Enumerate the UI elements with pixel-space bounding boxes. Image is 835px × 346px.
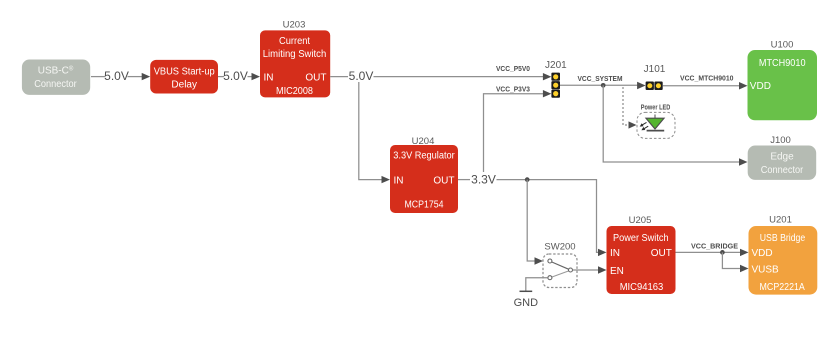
- wire junction to edge connector: [603, 85, 747, 165]
- wire VCC_P3V3 to J201 pin3: [484, 90, 552, 172]
- svg-text:OUT: OUT: [651, 248, 672, 259]
- svg-text:J100: J100: [770, 135, 791, 146]
- svg-text:5.0V: 5.0V: [349, 69, 374, 83]
- svg-text:IN: IN: [264, 72, 274, 83]
- wire 3.3V junction down to SW200: [527, 180, 543, 265]
- wire U204 OUT 3.3V rail: [458, 180, 607, 257]
- block U100 MTCH9010: [748, 50, 818, 120]
- svg-text:USB-C®: USB-C®: [38, 66, 74, 77]
- svg-text:5.0V: 5.0V: [104, 69, 129, 83]
- svg-text:USB Bridge: USB Bridge: [760, 233, 806, 244]
- block U204 3.3V regulator: [390, 145, 458, 213]
- svg-text:SW200: SW200: [544, 242, 575, 253]
- wire SW200 to U205 EN: [573, 266, 607, 273]
- svg-text:VDD: VDD: [750, 81, 771, 92]
- ground symbol: [520, 290, 533, 292]
- svg-text:IN: IN: [610, 248, 620, 259]
- svg-text:U205: U205: [629, 215, 652, 226]
- block U201 USB bridge: [749, 226, 818, 295]
- svg-text:VBUS Start-up: VBUS Start-up: [154, 66, 215, 77]
- block J100 edge connector: [748, 146, 817, 180]
- wire U203 OUT to J201 pin1 (5.0V rail): [330, 73, 551, 80]
- switch SW200: [543, 254, 577, 288]
- block VBUS Start-up Delay: [150, 60, 218, 94]
- svg-text:GND: GND: [514, 297, 539, 309]
- svg-text:OUT: OUT: [433, 175, 454, 186]
- svg-text:MCP2221A: MCP2221A: [760, 282, 806, 293]
- svg-text:J201: J201: [545, 60, 567, 71]
- wire drop 5.0V rail to U204 IN: [359, 82, 390, 183]
- junction VCC_SYSTEM: [601, 83, 606, 88]
- svg-text:U201: U201: [769, 215, 792, 226]
- svg-text:MTCH9010: MTCH9010: [759, 58, 806, 69]
- junction VCC_BRIDGE: [720, 250, 725, 255]
- svg-text:MCP1754: MCP1754: [405, 199, 444, 210]
- wire U205 OUT to U201 VDD: [676, 249, 749, 256]
- wire GND to SW200: [526, 278, 548, 292]
- svg-text:VCC_BRIDGE: VCC_BRIDGE: [691, 241, 738, 250]
- svg-text:U100: U100: [771, 40, 794, 51]
- svg-text:Delay: Delay: [171, 79, 197, 90]
- svg-text:VCC_P3V3: VCC_P3V3: [496, 84, 530, 93]
- header J201: [551, 73, 560, 98]
- svg-text:Power LED: Power LED: [641, 103, 671, 112]
- svg-text:Power Switch: Power Switch: [613, 233, 669, 244]
- svg-text:OUT: OUT: [305, 72, 326, 83]
- svg-text:Edge: Edge: [770, 152, 794, 163]
- svg-text:VCC_P5V0: VCC_P5V0: [496, 64, 530, 73]
- svg-text:J101: J101: [644, 64, 666, 75]
- wire USB-C to VBUS delay: [91, 73, 150, 80]
- power LED box: [637, 112, 675, 138]
- svg-text:EN: EN: [610, 266, 624, 277]
- svg-text:Limiting Switch: Limiting Switch: [263, 49, 327, 60]
- block USB-C Connector: [22, 60, 90, 95]
- header J101: [646, 82, 663, 91]
- svg-text:VDD: VDD: [752, 248, 773, 259]
- svg-text:IN: IN: [394, 175, 404, 186]
- svg-text:MIC2008: MIC2008: [276, 86, 313, 97]
- svg-text:VCC_SYSTEM: VCC_SYSTEM: [578, 74, 623, 83]
- svg-text:VUSB: VUSB: [752, 264, 780, 275]
- svg-text:Connector: Connector: [34, 79, 77, 90]
- svg-text:MIC94163: MIC94163: [620, 282, 664, 293]
- svg-text:Current: Current: [279, 36, 310, 47]
- svg-text:U203: U203: [283, 20, 306, 31]
- block U203 current limiting switch: [260, 30, 330, 97]
- svg-text:Connector: Connector: [761, 165, 804, 176]
- wire VBUS delay to U203: [218, 73, 260, 80]
- junction 3.3V: [525, 177, 530, 182]
- svg-text:5.0V: 5.0V: [223, 69, 248, 83]
- wire J201 pin2 to J101: [560, 82, 646, 89]
- wire VCC_BRIDGE to U201 VUSB: [722, 252, 748, 272]
- svg-text:3.3V: 3.3V: [471, 172, 496, 186]
- wire J101 to U100 VDD: [663, 82, 748, 89]
- wire dashed to power LED: [623, 87, 637, 129]
- block U205 power switch: [607, 226, 676, 294]
- svg-text:VCC_MTCH9010: VCC_MTCH9010: [680, 74, 734, 83]
- svg-text:3.3V Regulator: 3.3V Regulator: [393, 150, 455, 161]
